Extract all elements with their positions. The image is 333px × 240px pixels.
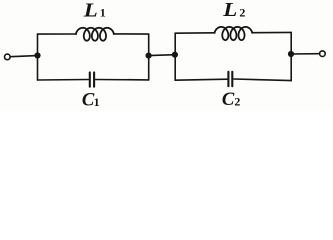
wire top edge to inductor L1: [38, 33, 77, 35]
inductor L2 coil: [215, 27, 253, 40]
wire left edge of L1C1 tank: [37, 34, 39, 80]
wire capacitor C2 to bottom-left corner: [175, 79, 227, 80]
label L2: [222, 0, 245, 20]
wire top edge to inductor L2: [175, 32, 215, 34]
svg-text:2: 2: [239, 6, 245, 20]
capacitor C2 left plate: [227, 72, 229, 86]
wire right edge of L2C2 tank: [290, 32, 292, 80]
wire right edge of L1C1 tank: [148, 34, 150, 80]
capacitor C2 right plate: [231, 72, 233, 86]
svg-text:C: C: [222, 89, 235, 110]
wire node to output terminal: [291, 53, 319, 55]
wire link between tank 1 and tank 2: [149, 54, 175, 57]
node junction dot right side of tank 1: [146, 53, 152, 59]
svg-text:2: 2: [234, 94, 240, 108]
wire input terminal to node A: [10, 56, 37, 57]
wire left edge of L2C2 tank: [174, 33, 176, 80]
wire capacitor C1 to bottom-left corner: [38, 79, 89, 82]
node junction dot left side of tank 2: [172, 52, 178, 58]
svg-text:L: L: [222, 0, 237, 20]
wire inductor L2 to top-right corner: [252, 31, 291, 33]
label C2: [222, 89, 241, 110]
svg-text:1: 1: [94, 95, 100, 109]
input terminal (open circle, left): [5, 54, 11, 60]
node junction dot at input: [34, 52, 40, 58]
label L1: [83, 0, 106, 21]
wire bottom edge to capacitor C2: [234, 79, 291, 81]
wire bottom edge to capacitor C1: [96, 79, 149, 81]
output terminal (open circle, right): [320, 51, 326, 57]
svg-text:1: 1: [100, 6, 106, 20]
capacitor C1 left plate: [89, 72, 91, 86]
node junction dot at output: [288, 51, 294, 57]
label C1: [82, 89, 100, 110]
capacitor C1 right plate: [93, 72, 95, 86]
wire inductor L1 to top-right corner: [114, 33, 149, 35]
svg-text:L: L: [83, 0, 98, 21]
inductor L1 coil: [76, 28, 114, 41]
